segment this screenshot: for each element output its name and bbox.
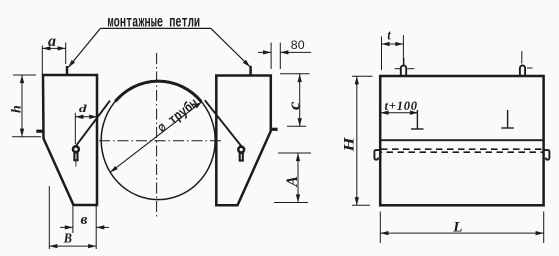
horizontal centerline bbox=[99, 140, 221, 142]
dimension t+100 bbox=[381, 112, 419, 114]
svg-text:В: В bbox=[63, 230, 72, 246]
svg-text:h: h bbox=[10, 105, 25, 113]
pipe circle bbox=[101, 81, 215, 200]
svg-text:H: H bbox=[340, 136, 357, 153]
left top hook stub bbox=[66, 66, 69, 75]
anchor depth mark 2 bbox=[501, 110, 514, 128]
right lifting loop bbox=[238, 147, 244, 161]
right block embedded plate tick bbox=[271, 128, 278, 131]
dimension d bbox=[75, 113, 97, 144]
pipe diameter dimension line bbox=[110, 102, 202, 173]
svg-text:t: t bbox=[387, 27, 391, 43]
svg-text:c: c bbox=[284, 102, 303, 110]
right block bbox=[216, 76, 270, 206]
svg-text:L: L bbox=[452, 219, 462, 235]
right sling line bbox=[205, 100, 241, 146]
hook2 vertical dash above bbox=[521, 51, 523, 64]
svg-text:a: a bbox=[48, 33, 56, 50]
hook1 centerline above bbox=[403, 58, 405, 65]
sling arc over pipe bbox=[115, 81, 201, 101]
hook2 side tick bbox=[527, 67, 533, 69]
dimension H bbox=[352, 76, 373, 205]
dimension A bbox=[274, 153, 311, 203]
left lifting loop bbox=[73, 146, 79, 166]
label underline bbox=[100, 27, 210, 29]
dimension L bbox=[380, 212, 543, 244]
dimension t bbox=[382, 35, 404, 70]
dashed line row 2 bbox=[381, 151, 544, 153]
hook1 side ticks bbox=[395, 68, 401, 70]
top hook 2 (right view) bbox=[520, 65, 525, 75]
svg-text:монтажные петли: монтажные петли bbox=[108, 13, 201, 31]
left side loop bbox=[374, 150, 380, 160]
dimension a bbox=[42, 43, 65, 75]
svg-text:t+100: t+100 bbox=[385, 99, 418, 113]
left sling line bbox=[76, 101, 110, 146]
vertical centerline bbox=[156, 53, 158, 218]
dimension 80 (left view) bbox=[258, 43, 311, 69]
left block embedded plate tick bbox=[36, 130, 43, 133]
top hook 1 (right view) bbox=[401, 65, 406, 75]
label leader left bbox=[68, 28, 100, 67]
dimension c bbox=[280, 74, 310, 127]
dimension b small bbox=[60, 206, 109, 234]
dimension B big bbox=[49, 186, 96, 249]
label leader right bbox=[211, 28, 250, 67]
right view rectangle bbox=[380, 76, 543, 205]
right top hook stub bbox=[249, 66, 252, 75]
dashed line row 1 bbox=[381, 148, 544, 150]
svg-text:d: d bbox=[79, 102, 87, 114]
inner solid line bbox=[380, 139, 543, 141]
left block bbox=[43, 75, 97, 205]
svg-text:в: в bbox=[81, 211, 88, 228]
right side loop bbox=[543, 150, 549, 160]
dimension h bbox=[12, 75, 41, 137]
svg-text:A: A bbox=[284, 176, 301, 187]
svg-text:80: 80 bbox=[291, 38, 305, 52]
